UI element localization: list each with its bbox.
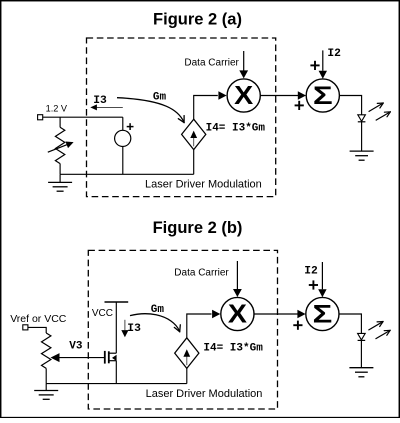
potentiometer R1 (b) [42, 333, 51, 384]
arrowhead into summer (a) [298, 91, 306, 100]
svg-text:Laser Driver Modulation: Laser Driver Modulation [146, 388, 263, 400]
arrowhead into multiplier (b) [212, 310, 220, 319]
potentiometer wiper arrow V3 (b) [51, 353, 105, 362]
diamond internal arrow (b) [183, 349, 190, 365]
potentiometer wiper arrow (a) [48, 142, 74, 153]
svg-text:Σ: Σ [313, 301, 333, 328]
dependent current source I4 diamond (b) [175, 338, 199, 369]
wire summer to LED (b) [339, 314, 361, 333]
label Gm (b) [151, 304, 165, 316]
svg-text:I2: I2 [304, 265, 318, 277]
polarity + of current source (a) [127, 123, 134, 130]
svg-text:I4= I3*Gm: I4= I3*Gm [203, 342, 263, 354]
svg-text:Σ: Σ [313, 83, 333, 110]
svg-text:Data Carrier: Data Carrier [174, 267, 229, 278]
svg-text:1.2 V: 1.2 V [46, 103, 68, 113]
ground (a) right [350, 151, 374, 160]
wire multiplier to summer (b) [254, 313, 297, 315]
current I2 arrow (b) [318, 262, 326, 297]
multiplier X (a) [227, 79, 260, 112]
ground (b) right [349, 368, 373, 377]
svg-text:V3: V3 [69, 340, 83, 352]
label I4= I3*Gm (a) [206, 123, 266, 135]
svg-text:I2: I2 [327, 48, 341, 60]
plus sign at summer top (a) [310, 61, 319, 70]
svg-text:X: X [228, 299, 247, 328]
svg-text:I4= I3*Gm: I4= I3*Gm [206, 123, 266, 135]
svg-text:Laser Driver Modulation: Laser Driver Modulation [145, 179, 262, 191]
plus sign at summer left (a) [295, 101, 304, 110]
current I3 arrow (b) [121, 320, 128, 338]
ground (b) left [34, 384, 58, 400]
svg-text:Gm: Gm [151, 304, 165, 316]
title Figure 2 (a) [153, 10, 242, 28]
plus sign at summer left (b) [293, 321, 302, 330]
transconductance Gm arrow (a) [117, 98, 184, 123]
laser driver modulation block boundary (a) [87, 38, 276, 197]
label Data Carrier (b) [174, 267, 229, 278]
LED light arrows (a) [369, 103, 391, 120]
arrowhead into summer (b) [297, 310, 305, 319]
transistor Q1 MOSFET gate bar [104, 351, 106, 364]
label Laser Driver Modulation (b) [146, 388, 263, 400]
diamond internal arrow (a) [190, 131, 197, 147]
node Vref or VCC terminal (b) [23, 325, 28, 330]
svg-text:Data Carrier: Data Carrier [184, 57, 239, 68]
laser driver modulation block boundary (b) [88, 250, 277, 409]
data carrier arrow (a) [239, 51, 248, 78]
label I2 (a) [327, 48, 341, 60]
wire bottom rail (b) [46, 383, 187, 385]
wire diamond to bottom rail (b) [186, 368, 188, 383]
arrowhead into multiplier (a) [218, 91, 226, 100]
label I3 (b) [127, 323, 141, 335]
potentiometer R1 (a) [55, 117, 64, 174]
node 1.2 V terminal (a) [38, 115, 43, 120]
svg-text:Figure 2 (a): Figure 2 (a) [153, 10, 242, 28]
label Data Carrier (a) [184, 57, 239, 68]
current source I3 (a) [115, 117, 131, 174]
data carrier arrow (b) [233, 261, 242, 297]
transistor Q1 MOSFET source stub [110, 360, 117, 362]
current I3 arrow (a) [90, 104, 123, 110]
label I3 (a) [93, 95, 107, 107]
wire terminal to potentiometer (b) [28, 327, 46, 333]
ground (a) left [48, 174, 72, 191]
svg-text:I3: I3 [93, 95, 107, 107]
transistor Q1 MOSFET channel bar [108, 351, 110, 363]
svg-text:Vref or VCC: Vref or VCC [10, 313, 67, 325]
LED D2 (b) [358, 333, 366, 367]
label I2 (b) [304, 265, 318, 277]
LED D1 (a) [358, 115, 366, 151]
label VCC (b) [92, 308, 113, 319]
wire 1.2V rail (a) [43, 116, 123, 118]
label Laser Driver Modulation (a) [145, 179, 262, 191]
label I4= I3*Gm (b) [203, 342, 263, 354]
wire summer to LED (a) [339, 96, 361, 115]
transistor Q1 MOSFET drain stub [110, 352, 117, 354]
wire bottom rail (a) [60, 173, 194, 175]
svg-text:I3: I3 [127, 323, 141, 335]
wire diamond to multiplier (a) [194, 96, 218, 120]
multiplier X (b) [221, 297, 254, 330]
LED light arrows (b) [368, 322, 390, 339]
wire MOSFET source to bottom rail (b) [115, 361, 117, 384]
label V3 [69, 340, 83, 352]
svg-text:X: X [234, 80, 253, 109]
label 1.2 V [46, 103, 68, 113]
svg-text:Gm: Gm [153, 92, 167, 104]
label Vref or VCC [10, 313, 67, 325]
wire diamond to multiplier (b) [187, 314, 212, 338]
power VCC bar (b) [105, 302, 129, 353]
current I2 arrow (a) [319, 50, 327, 78]
summer SIGMA (a) [306, 79, 339, 112]
wire multiplier to summer (a) [261, 95, 299, 97]
transconductance Gm arrow (b) [130, 314, 180, 332]
transistor Q1 MOSFET source arrow [112, 355, 117, 361]
dependent current source I4 diamond (a) [182, 119, 206, 149]
title Figure 2 (b) [153, 219, 243, 237]
label Gm (a) [153, 92, 167, 104]
summer SIGMA (b) [306, 297, 339, 330]
svg-text:VCC: VCC [92, 308, 113, 319]
wire diamond to bottom rail (a) [193, 150, 195, 175]
svg-text:Figure 2 (b): Figure 2 (b) [153, 219, 243, 237]
plus sign at summer top (b) [309, 280, 318, 289]
